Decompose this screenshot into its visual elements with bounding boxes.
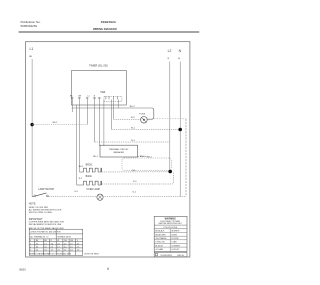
svg-text:BREAKER: BREAKER bbox=[113, 151, 124, 154]
svg-text:1.9: 1.9 bbox=[77, 250, 79, 252]
svg-text:2: 2 bbox=[30, 246, 31, 248]
svg-text:BK-BLACK: BK-BLACK bbox=[155, 230, 165, 233]
svg-text:3.4: 3.4 bbox=[44, 250, 46, 252]
svg-text:WIRING DIAGRAM: WIRING DIAGRAM bbox=[93, 27, 117, 31]
svg-text:BR-2: BR-2 bbox=[147, 156, 153, 158]
svg-text:L1: L1 bbox=[30, 47, 34, 51]
svg-text:2.5: 2.5 bbox=[57, 250, 59, 252]
svg-text:2.5: 2.5 bbox=[51, 246, 53, 248]
svg-text:BR-BROWN: BR-BROWN bbox=[155, 234, 166, 236]
svg-text:3.4: 3.4 bbox=[51, 243, 53, 245]
svg-text:IMPORTANT:: IMPORTANT: bbox=[29, 218, 44, 221]
svg-text:6: 6 bbox=[107, 267, 109, 271]
svg-text:GY-GRAY: GY-GRAY bbox=[155, 248, 164, 251]
svg-text:REPLACEMENT IN SERVICE LINE: REPLACEMENT IN SERVICE LINE bbox=[29, 223, 62, 226]
svg-text:L2: L2 bbox=[168, 49, 172, 53]
svg-text:1: 1 bbox=[30, 243, 31, 245]
svg-text:THERMAL CIRCUIT: THERMAL CIRCUIT bbox=[109, 148, 130, 151]
svg-text:1.9: 1.9 bbox=[44, 243, 46, 245]
svg-text:25: 25 bbox=[36, 250, 38, 252]
svg-text:BROIL: BROIL bbox=[86, 165, 94, 167]
svg-text:OR-ORANGE: OR-ORANGE bbox=[155, 237, 167, 240]
svg-text:SWITCH OPEN CLOSED.: SWITCH OPEN CLOSED. bbox=[29, 212, 53, 214]
svg-text:W-WHITE: W-WHITE bbox=[171, 231, 180, 233]
svg-text:2.5: 2.5 bbox=[44, 246, 46, 248]
svg-text:ALL TERMINAL BD. TO: ALL TERMINAL BD. TO bbox=[30, 236, 49, 239]
svg-text:BK-1: BK-1 bbox=[53, 122, 59, 124]
svg-text:Y-YELLOW: Y-YELLOW bbox=[155, 242, 164, 244]
svg-text:R-RED: R-RED bbox=[171, 234, 177, 236]
svg-text:CHECK FOR PART NO. AND USE FOR: CHECK FOR PART NO. AND USE FOR bbox=[30, 230, 61, 233]
svg-text:OVEN LAMP: OVEN LAMP bbox=[87, 188, 101, 191]
svg-text:25: 25 bbox=[36, 243, 38, 245]
svg-text:BAKE: BAKE bbox=[86, 175, 93, 178]
svg-text:5995394281: 5995394281 bbox=[21, 24, 38, 28]
svg-text:2.5: 2.5 bbox=[57, 243, 59, 245]
svg-text:3.4: 3.4 bbox=[64, 246, 66, 248]
svg-text:SURFACE UNITS: SURFACE UNITS bbox=[57, 236, 71, 239]
svg-text:PK-PINK: PK-PINK bbox=[171, 238, 179, 240]
svg-text:NOTE ON THIS): NOTE ON THIS) bbox=[85, 254, 99, 256]
svg-text:2.5: 2.5 bbox=[70, 246, 72, 248]
svg-text:P&B: P&B bbox=[101, 92, 106, 94]
svg-text:BK-2: BK-2 bbox=[130, 106, 136, 108]
svg-text:2.5: 2.5 bbox=[64, 243, 66, 245]
svg-text:1.9: 1.9 bbox=[70, 243, 72, 245]
svg-text:1.9: 1.9 bbox=[51, 250, 53, 252]
svg-text:TIMER (DL-2D): TIMER (DL-2D) bbox=[89, 64, 108, 68]
svg-text:T-TAN: T-TAN bbox=[171, 241, 177, 244]
svg-text:G-GREEN: G-GREEN bbox=[171, 245, 180, 247]
svg-text:2.5: 2.5 bbox=[77, 246, 79, 248]
svg-text:BL-BLUE: BL-BLUE bbox=[155, 245, 163, 247]
svg-text:FUSE: FUSE bbox=[139, 113, 145, 115]
svg-text:2.5: 2.5 bbox=[64, 250, 66, 252]
svg-text:1.9: 1.9 bbox=[57, 246, 59, 248]
svg-text:06/03: 06/03 bbox=[19, 268, 26, 272]
svg-text:REV. A: REV. A bbox=[177, 254, 184, 257]
svg-text:3.4: 3.4 bbox=[70, 250, 72, 252]
svg-text:NOTE:: NOTE: bbox=[29, 203, 37, 206]
svg-text:FEB24S2A: FEB24S2A bbox=[101, 20, 117, 24]
svg-text:34: 34 bbox=[36, 246, 38, 248]
svg-text:V-VIOLET: V-VIOLET bbox=[171, 249, 180, 251]
svg-text:3: 3 bbox=[30, 250, 31, 252]
svg-text:240: 240 bbox=[64, 240, 67, 242]
svg-text:WIRING DIAGRAM PART NO. 599539: WIRING DIAGRAM PART NO. 5995394281 (SEE bbox=[29, 253, 71, 256]
svg-text:208: 208 bbox=[70, 240, 73, 242]
svg-text:3.4: 3.4 bbox=[77, 243, 79, 245]
svg-text:5995394281: 5995394281 bbox=[160, 255, 172, 257]
svg-text:LAMP SWITCH: LAMP SWITCH bbox=[38, 188, 54, 191]
